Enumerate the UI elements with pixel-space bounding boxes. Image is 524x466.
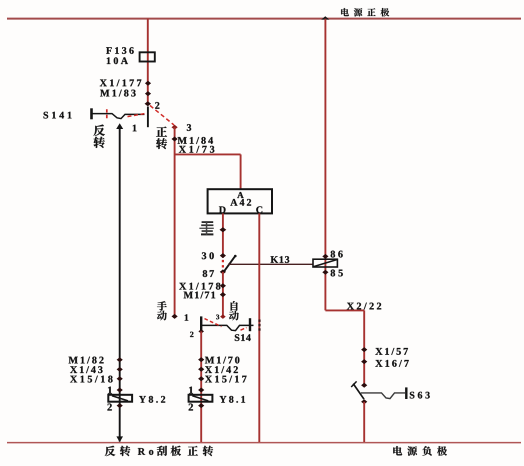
wire top power rail: [7, 18, 521, 20]
label fan-zhuan vertical: [94, 125, 105, 148]
label S14: [235, 334, 251, 341]
switch S14 dashed link left: [205, 319, 222, 327]
label F136 10A: [106, 47, 134, 64]
wire A42 C down to bottom rail: [258, 213, 260, 442]
wire contact to coil K13: [228, 263, 313, 265]
switch S63 top node: [361, 383, 367, 388]
connector M1/70: [198, 357, 239, 364]
label S63: [410, 392, 430, 399]
switch S14 left bar: [200, 316, 202, 331]
node power negative label: [393, 446, 447, 456]
switch S14 dashed link right: [241, 328, 247, 331]
fuse F136: [140, 52, 155, 61]
connector on D wire: [219, 227, 226, 232]
relay contact blade K13: [224, 255, 236, 272]
node 1 arrow: [116, 123, 136, 131]
label S141: [44, 112, 72, 119]
connector X1/42: [198, 366, 238, 373]
solenoid Y8.2: [108, 395, 132, 402]
relay contact 30: [202, 252, 226, 259]
node 1 manual: [172, 314, 189, 321]
connector X1/178: [179, 283, 226, 290]
connector X1/177: [100, 79, 151, 86]
connector X15/18: [70, 376, 123, 383]
label X2/22: [347, 303, 381, 310]
wire right main line: [324, 19, 326, 311]
solenoid Y8.1 pin 1: [189, 387, 204, 394]
connector M1/71: [184, 292, 226, 299]
connector M1/83: [100, 90, 151, 97]
connector X1/57: [361, 347, 408, 355]
switch S63 bottom node: [361, 399, 367, 404]
label fan-zhuan bottom: [105, 446, 130, 456]
wire S63 to bottom rail: [363, 402, 365, 442]
label zheng-zhuan vertical: [156, 126, 167, 149]
switch S14 lever wire: [201, 325, 253, 330]
switch S141 lever wire: [92, 114, 145, 119]
label zheng-zhuan bottom: [188, 446, 213, 456]
connector M1/84: [172, 137, 214, 144]
wire A42 D down: [222, 213, 224, 257]
switch S141 red tick: [106, 109, 108, 119]
solenoid Y8.2 pin 2: [107, 403, 122, 410]
label K13: [271, 256, 290, 263]
switch S14 right bar: [249, 318, 251, 331]
wire dashed link wave to pole: [128, 113, 147, 116]
wire reverse branch black: [119, 128, 121, 442]
connector X16/7: [361, 359, 409, 367]
node 3: [172, 124, 192, 131]
connector M1/82: [69, 357, 123, 364]
relay contact dotted gap: [222, 260, 224, 268]
node junction arrow top rail: [321, 16, 329, 19]
connector X15/17: [198, 376, 246, 383]
relay coil K13 pin 86: [322, 251, 342, 259]
label A42: [230, 199, 251, 206]
node 2 pole: [145, 101, 160, 127]
label zi-dong vertical: [229, 301, 239, 320]
solenoid Y8.2 pin 1: [108, 387, 123, 394]
switch S63 blade: [351, 381, 364, 399]
wire X2/22 corner: [325, 310, 364, 384]
node power positive label: [341, 8, 389, 16]
wire D below 87: [222, 272, 224, 317]
label tiny note: [199, 221, 213, 235]
relay coil K13: [313, 259, 337, 267]
node ticks on C wire: [258, 320, 260, 331]
label pin D: [219, 206, 226, 213]
connector X1/73: [179, 146, 214, 153]
wire node3 down manual: [174, 127, 176, 316]
relay contact 87: [203, 269, 226, 277]
switch S63 lever wire: [361, 393, 405, 399]
label Ro gua-ban: [138, 446, 181, 456]
label pin C: [256, 206, 262, 213]
switch S14 pin 2: [190, 329, 204, 337]
wire feeder from top rail to node 2: [147, 19, 149, 106]
wire bottom power rail: [7, 442, 521, 444]
label pin A: [237, 192, 243, 198]
connector X1/43: [70, 366, 123, 373]
wire branch to A42 pin A: [175, 154, 241, 189]
label Y8.2: [139, 396, 165, 403]
switch S63 terminal bar: [405, 387, 407, 399]
box A42: [208, 189, 272, 213]
relay coil K13 pin 85: [322, 270, 343, 277]
solenoid Y8.1: [189, 395, 213, 402]
label shou-dong vertical: [157, 301, 167, 320]
switch S14 pin 3: [216, 314, 225, 319]
solenoid Y8.1 pin 2: [189, 403, 205, 410]
wire dashed link node2 to node3: [150, 106, 174, 126]
node bottom arrow black line: [116, 436, 123, 442]
switch S141 terminal bar: [90, 108, 93, 119]
wire forward branch: [200, 331, 202, 442]
label Y8.1: [220, 396, 246, 403]
